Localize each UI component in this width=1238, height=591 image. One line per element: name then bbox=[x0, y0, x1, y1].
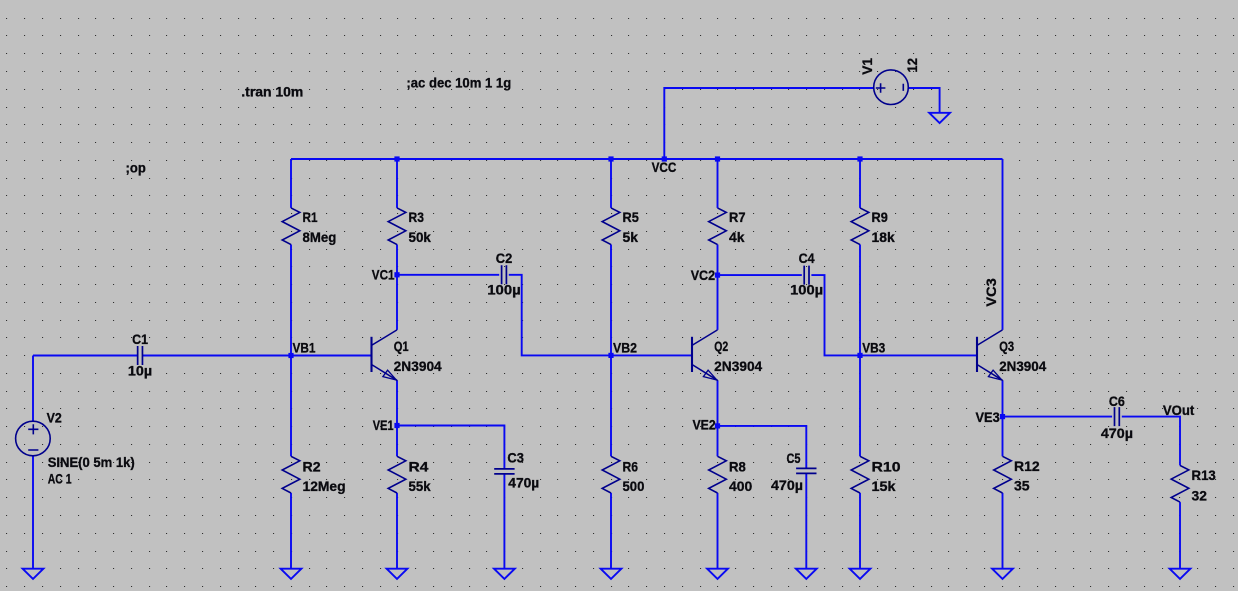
wire R7 top lead bbox=[717, 159, 719, 208]
svg-text:R8: R8 bbox=[729, 459, 746, 474]
svg-text:R9: R9 bbox=[872, 210, 889, 225]
svg-text:R2: R2 bbox=[303, 459, 322, 474]
wire R2 to ground bbox=[290, 493, 292, 569]
ground R8 bbox=[707, 569, 728, 579]
resistor R12 bbox=[994, 456, 1040, 493]
voltage source V1 bbox=[860, 58, 920, 105]
wire R3 to VC1 to Q1 collector bbox=[396, 245, 398, 330]
svg-text:C2: C2 bbox=[496, 251, 513, 266]
svg-text:R10: R10 bbox=[872, 459, 901, 474]
svg-text:VOut: VOut bbox=[1163, 403, 1195, 418]
svg-text:50k: 50k bbox=[409, 230, 432, 245]
wire R13 to ground bbox=[1179, 502, 1181, 569]
voltage source V2 bbox=[16, 410, 135, 486]
svg-text:100µ: 100µ bbox=[790, 282, 823, 297]
svg-text:R4: R4 bbox=[409, 459, 429, 474]
svg-text:C4: C4 bbox=[799, 251, 815, 266]
wire V1 to ground bbox=[909, 88, 940, 113]
svg-text:18k: 18k bbox=[872, 230, 896, 245]
svg-text:SINE(0 5m 1k): SINE(0 5m 1k) bbox=[48, 455, 135, 470]
svg-text:Q2: Q2 bbox=[714, 339, 728, 354]
wire R1 to VB1 to R2 bbox=[290, 245, 292, 457]
node VE1 junction bbox=[394, 423, 399, 428]
wire R9 top lead bbox=[859, 159, 861, 208]
wire R3 top lead bbox=[396, 159, 398, 208]
node VC2 junction bbox=[715, 273, 720, 278]
svg-text:5k: 5k bbox=[623, 230, 639, 245]
ground V1 bbox=[929, 113, 950, 123]
svg-text:4k: 4k bbox=[729, 230, 745, 245]
capacitor C6 bbox=[1101, 394, 1133, 441]
svg-text:VCC: VCC bbox=[652, 160, 677, 175]
wire R10 to ground bbox=[859, 493, 861, 569]
resistor R7 bbox=[709, 208, 746, 245]
node VE2 junction bbox=[715, 423, 720, 428]
svg-text:VE1: VE1 bbox=[373, 418, 394, 433]
svg-text:470µ: 470µ bbox=[508, 476, 539, 491]
wire VB2 to Q2 base bbox=[611, 354, 692, 356]
wire R12 to ground bbox=[1002, 493, 1004, 569]
svg-text:8Meg: 8Meg bbox=[303, 230, 337, 245]
wire V2 top lead bbox=[32, 356, 34, 422]
wire VE3 to C6 bbox=[1003, 416, 1113, 418]
wire R5 to VB2 to R6 bbox=[610, 245, 612, 457]
resistor R4 bbox=[388, 456, 431, 494]
svg-text:32: 32 bbox=[1192, 489, 1208, 504]
transistor Q1 bbox=[372, 330, 443, 380]
capacitor C3 bbox=[494, 451, 539, 491]
wire V1 to rail bbox=[664, 88, 873, 159]
svg-text:VB2: VB2 bbox=[613, 341, 637, 356]
wire VC1 to C2 bbox=[397, 274, 499, 276]
svg-text:VB3: VB3 bbox=[862, 341, 885, 356]
node junction rail-R3 bbox=[394, 156, 399, 161]
svg-text:R5: R5 bbox=[623, 210, 640, 225]
svg-text:V2: V2 bbox=[47, 410, 63, 425]
capacitor C4 bbox=[790, 251, 823, 298]
node VC1 junction bbox=[394, 272, 399, 277]
resistor R10 bbox=[851, 456, 900, 494]
wire C2 to VB2 bbox=[509, 275, 611, 356]
wire input V2 to C1 bbox=[33, 355, 137, 357]
svg-text:15k: 15k bbox=[872, 479, 896, 494]
svg-text:Q3: Q3 bbox=[999, 339, 1014, 354]
wire C4 to VB3 bbox=[811, 275, 860, 355]
wire VE3 to R12 bbox=[1002, 417, 1004, 457]
svg-text:C6: C6 bbox=[1109, 394, 1125, 409]
wire VC2 to C4 bbox=[718, 274, 802, 276]
svg-text:35: 35 bbox=[1014, 479, 1030, 494]
node junction rail-R9 bbox=[857, 156, 862, 161]
svg-text:400: 400 bbox=[729, 479, 752, 494]
svg-text:VE3: VE3 bbox=[976, 410, 1001, 425]
capacitor C5 bbox=[771, 451, 817, 493]
wire C5 to ground bbox=[805, 473, 807, 568]
wire Q1 emitter to VE1 bbox=[396, 380, 398, 425]
svg-text:10µ: 10µ bbox=[128, 364, 152, 379]
capacitor C1 bbox=[128, 332, 152, 379]
ground R2 bbox=[281, 569, 302, 579]
node VB3 junction bbox=[857, 353, 862, 358]
svg-text:500: 500 bbox=[623, 479, 645, 494]
wire R9 to VB3 to R10 bbox=[859, 245, 861, 457]
svg-text:VE2: VE2 bbox=[693, 418, 717, 433]
capacitor C2 bbox=[487, 251, 521, 298]
resistor R2 bbox=[282, 456, 345, 494]
svg-text:C5: C5 bbox=[787, 451, 801, 466]
svg-text:R13: R13 bbox=[1192, 468, 1217, 483]
node VB2 junction bbox=[608, 353, 613, 358]
svg-text:R6: R6 bbox=[623, 459, 639, 474]
resistor R9 bbox=[851, 208, 895, 245]
ground R10 bbox=[850, 569, 871, 579]
node junction rail-V1 bbox=[662, 156, 667, 161]
svg-text:C1: C1 bbox=[132, 332, 148, 347]
ground R13 bbox=[1170, 569, 1191, 579]
svg-text:12: 12 bbox=[905, 58, 920, 73]
svg-text:12Meg: 12Meg bbox=[303, 479, 346, 494]
node VE3 junction bbox=[1000, 414, 1005, 419]
ground C3 bbox=[494, 569, 515, 579]
svg-text:R12: R12 bbox=[1014, 459, 1040, 474]
svg-text:R1: R1 bbox=[303, 210, 318, 225]
node junction rail-R5 bbox=[608, 156, 613, 161]
svg-text:.tran 10m: .tran 10m bbox=[241, 85, 303, 100]
ground V2 bbox=[23, 569, 44, 579]
wire VE1 to R4 bbox=[396, 426, 398, 457]
wire C1 to Q1 base bbox=[143, 355, 372, 357]
resistor R3 bbox=[388, 208, 431, 245]
svg-text:2N3904: 2N3904 bbox=[394, 359, 442, 374]
svg-text:R7: R7 bbox=[729, 210, 746, 225]
ground R4 bbox=[387, 569, 408, 579]
wire R7 to VC2 to Q2 collector bbox=[717, 245, 719, 330]
svg-text:VC3: VC3 bbox=[984, 278, 999, 307]
ground R12 bbox=[992, 569, 1013, 579]
wire VE1 to C3 bbox=[397, 426, 504, 469]
svg-text:C3: C3 bbox=[507, 451, 524, 466]
transistor Q2 bbox=[692, 330, 763, 380]
svg-text:55k: 55k bbox=[409, 479, 432, 494]
wire Q3 emitter to VE3 bbox=[1002, 380, 1004, 416]
ground R6 bbox=[601, 569, 622, 579]
wire C6 to VOut to R13 bbox=[1122, 417, 1180, 466]
svg-text:;op: ;op bbox=[126, 161, 146, 176]
wire R1 top lead bbox=[290, 159, 292, 208]
wire VCC rail bbox=[291, 158, 1003, 160]
svg-text:2N3904: 2N3904 bbox=[999, 359, 1046, 374]
wire rail to Q3 collector bbox=[1002, 159, 1004, 330]
wire VE2 to C5 bbox=[718, 426, 807, 469]
wire Q2 emitter to VE2 bbox=[717, 380, 719, 426]
svg-text:R3: R3 bbox=[409, 210, 425, 225]
svg-text:V1: V1 bbox=[860, 58, 875, 75]
svg-text:VC2: VC2 bbox=[691, 268, 716, 283]
node junction rail-R7 bbox=[715, 156, 720, 161]
resistor R13 bbox=[1171, 465, 1216, 503]
svg-text:;ac dec 10m 1 1g: ;ac dec 10m 1 1g bbox=[406, 75, 511, 90]
svg-text:VC1: VC1 bbox=[372, 267, 395, 282]
svg-text:Q1: Q1 bbox=[394, 339, 409, 354]
wire C3 to ground bbox=[503, 474, 505, 569]
wire VB3 to Q3 base bbox=[860, 354, 977, 356]
svg-text:VB1: VB1 bbox=[293, 341, 316, 356]
wire R5 top lead bbox=[610, 159, 612, 208]
wire R8 to ground bbox=[717, 493, 719, 569]
svg-text:100µ: 100µ bbox=[487, 282, 521, 297]
svg-text:470µ: 470µ bbox=[1101, 426, 1133, 441]
svg-text:2N3904: 2N3904 bbox=[714, 359, 762, 374]
node VB1 junction bbox=[288, 353, 293, 358]
resistor R6 bbox=[602, 456, 644, 494]
wire V2 bottom lead bbox=[32, 456, 34, 569]
wire R6 to ground bbox=[610, 493, 612, 569]
svg-text:AC 1: AC 1 bbox=[48, 472, 72, 487]
resistor R1 bbox=[282, 208, 336, 245]
resistor R5 bbox=[602, 208, 639, 245]
resistor R8 bbox=[709, 456, 753, 494]
wire R4 to ground bbox=[396, 493, 398, 569]
wire VE2 to R8 bbox=[717, 426, 719, 456]
svg-text:470µ: 470µ bbox=[771, 478, 803, 493]
ground C5 bbox=[796, 569, 817, 579]
transistor Q3 bbox=[977, 330, 1047, 380]
